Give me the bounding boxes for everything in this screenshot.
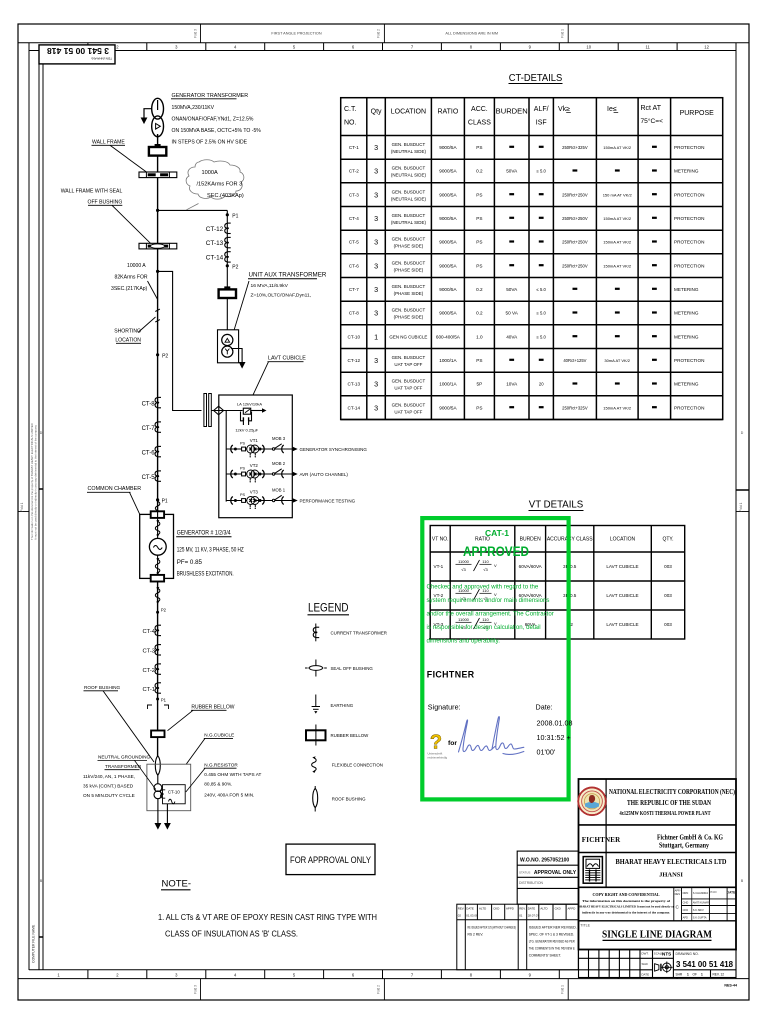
- svg-text:PS: PS: [476, 192, 482, 197]
- CT table row CT-10 values: [348, 332, 699, 341]
- svg-text:PROTECTION: PROTECTION: [674, 240, 704, 245]
- svg-text:NEUTRAL GROUNDING: NEUTRAL GROUNDING: [98, 755, 151, 760]
- svg-text:PS: PS: [476, 263, 482, 268]
- svg-text:CT-3: CT-3: [349, 192, 359, 197]
- capacitor 12kV 0.25uF: [241, 412, 252, 426]
- node P1 (neutral side CT set): [156, 698, 159, 701]
- wire: LAVT internal bus: [225, 411, 227, 502]
- svg-text:Qty: Qty: [371, 109, 382, 116]
- CT table row CT-7 values: [349, 284, 699, 296]
- svg-text:MOB 1: MOB 1: [272, 488, 286, 493]
- title block outline: [579, 779, 737, 950]
- svg-text:SPEC. OF VT-1 & 3 REVISED.: SPEC. OF VT-1 & 3 REVISED.: [529, 933, 575, 937]
- current transformer CT-5: [155, 471, 161, 481]
- svg-text:ISSUED AFTER NER REVISED.: ISSUED AFTER NER REVISED.: [529, 926, 577, 930]
- svg-text:12: 12: [704, 45, 709, 50]
- svg-text:3: 3: [374, 309, 378, 318]
- svg-text:2008.01.08: 2008.01.08: [537, 719, 573, 728]
- ground: generator transformer neutral earthing arrow: [141, 118, 148, 125]
- wire: bus below common chamber: [157, 578, 159, 757]
- legend current transformer symbol: [313, 624, 387, 642]
- svg-text:LOCATION: LOCATION: [391, 109, 426, 116]
- generator G1 symbol: [149, 538, 166, 555]
- svg-text:GEN. BUSDUCT: GEN. BUSDUCT: [392, 355, 426, 360]
- svg-text:DWT.: DWT.: [642, 952, 649, 956]
- svg-text:Fold 2: Fold 2: [377, 985, 381, 994]
- border bottom frame line: [29, 969, 736, 971]
- svg-text:CT-4: CT-4: [142, 629, 155, 635]
- CT table row CT-13 values: [348, 379, 699, 391]
- current transformer CT-1: [155, 683, 161, 693]
- svg-text:125 MV, 11 KV, 3 PHASE, 50 HZ: 125 MV, 11 KV, 3 PHASE, 50 HZ: [177, 547, 244, 554]
- svg-text:METERING: METERING: [674, 382, 699, 387]
- svg-text:9000/5A: 9000/5A: [439, 405, 457, 410]
- svg-text:150MVA,230/11KV: 150MVA,230/11KV: [172, 105, 215, 111]
- bottom tick marks: [57, 970, 709, 979]
- svg-text:C.T.: C.T.: [344, 106, 357, 113]
- svg-text:S.K.GUPTA: S.K.GUPTA: [693, 916, 707, 920]
- svg-text:PS: PS: [240, 493, 246, 497]
- label N.G.RESISTOR: [204, 763, 262, 798]
- svg-text:GEN. BUSDUCT: GEN. BUSDUCT: [392, 189, 426, 194]
- CT table row CT-6 values: [349, 260, 705, 272]
- svg-text:Z=10%,OLTC/ONAF,Dyn11,: Z=10%,OLTC/ONAF,Dyn11,: [251, 293, 312, 299]
- svg-text:9000/5A: 9000/5A: [439, 263, 457, 268]
- CT table row CT-1 values: [349, 142, 705, 154]
- leader NG cubicle: [186, 738, 205, 764]
- CT table row CT-5 values: [349, 237, 705, 249]
- svg-text:150mA AT VK/2: 150mA AT VK/2: [603, 240, 632, 245]
- svg-text:CT-DETAILS: CT-DETAILS: [509, 72, 563, 84]
- svg-text:MOB 2: MOB 2: [272, 461, 286, 466]
- svg-text:VT NO.: VT NO.: [432, 537, 449, 543]
- svg-text:50 VA: 50 VA: [506, 311, 519, 316]
- revision history tables: [457, 904, 579, 970]
- svg-text:QTY.: QTY.: [662, 537, 673, 543]
- svg-text:3: 3: [374, 285, 378, 294]
- svg-text:3: 3: [374, 167, 378, 176]
- legend seal off bushing symbol: [305, 660, 373, 677]
- node: busduct tap junction: [156, 209, 159, 212]
- svg-text:LAVT CUBICLE: LAVT CUBICLE: [606, 564, 638, 569]
- current transformer CT-3: [155, 645, 161, 655]
- fold boundary ticks left/right: [18, 511, 29, 513]
- svg-text:APPD: APPD: [506, 907, 514, 911]
- svg-text:CT-12: CT-12: [348, 358, 361, 363]
- svg-text:Fold 3: Fold 3: [194, 29, 198, 38]
- NG cubicle enclosure: [147, 764, 191, 811]
- svg-text:OFF BUSHING: OFF BUSHING: [87, 200, 122, 206]
- svg-text:PS: PS: [240, 441, 246, 445]
- wire: LAVT branch: [158, 271, 202, 410]
- svg-text:SHR: SHR: [676, 973, 683, 977]
- svg-text:ON 5 MIN.DUTY CYCLE: ON 5 MIN.DUTY CYCLE: [83, 793, 135, 798]
- legend flexible connection symbol: [312, 756, 383, 773]
- svg-text:ALTD: ALTD: [479, 907, 486, 911]
- svg-text:GEN. BUSDUCT: GEN. BUSDUCT: [392, 213, 426, 218]
- svg-text:CURRENT TRANSFORMER: CURRENT TRANSFORMER: [331, 631, 387, 636]
- leader rubber bellow: [168, 710, 194, 730]
- ground: NG transformer earthing: [155, 823, 162, 830]
- svg-text:PF= 0.85: PF= 0.85: [177, 559, 203, 566]
- svg-text:(PHASE SIDE): (PHASE SIDE): [394, 315, 424, 320]
- svg-text:CT-5: CT-5: [349, 240, 359, 245]
- svg-text:RUBBER BELLOW: RUBBER BELLOW: [331, 733, 370, 738]
- svg-text:is responsible for design calc: is responsible for design calculation, d…: [427, 624, 541, 631]
- svg-text:10VA: 10VA: [506, 382, 518, 387]
- svg-text:10: 10: [586, 45, 591, 50]
- label NEUTRAL GROUNDING TRANSFORMER: [83, 755, 151, 798]
- svg-text:ROOF BUSHING: ROOF BUSHING: [332, 797, 366, 802]
- svg-text:Fold 2: Fold 2: [377, 29, 381, 38]
- W.O. number box: [517, 851, 578, 904]
- zone ticks left: [39, 488, 43, 490]
- BHEL logo emblem: [583, 857, 602, 884]
- svg-text:VT1: VT1: [250, 438, 259, 443]
- svg-text:RATIO: RATIO: [437, 109, 458, 116]
- stamp body text: [427, 584, 554, 645]
- svg-text:CT-2: CT-2: [349, 169, 359, 174]
- scale and signature labels: [642, 952, 664, 977]
- svg-text:FICHTNER: FICHTNER: [582, 836, 621, 844]
- wire: UAT tap branch horizontal: [158, 209, 228, 211]
- svg-text:REV.: REV.: [519, 907, 526, 911]
- svg-text:DES: DES: [675, 892, 681, 896]
- svg-text:COPY RIGHT AND CONFIDENTIAL: COPY RIGHT AND CONFIDENTIAL: [592, 892, 659, 897]
- svg-text:80,85 & 90%.: 80,85 & 90%.: [204, 781, 232, 786]
- border top band line: [18, 42, 749, 44]
- svg-text:LOCATION: LOCATION: [115, 338, 141, 344]
- svg-text:50VA: 50VA: [506, 169, 518, 174]
- svg-text:CAT-1: CAT-1: [485, 528, 509, 538]
- CT table row CT-12 values: [348, 355, 705, 367]
- leader cloud to wire: [187, 204, 199, 210]
- flexible connection inside chamber top: [155, 520, 160, 537]
- svg-text:5P: 5P: [477, 382, 483, 387]
- seal off bushing diamond at LAVT entry: [214, 406, 224, 415]
- wire: NG resistor to earth: [166, 804, 168, 825]
- border left frame line: [28, 43, 30, 970]
- svg-text:250Rct+250V: 250Rct+250V: [562, 240, 588, 245]
- svg-text:STATUS: STATUS: [519, 870, 530, 874]
- svg-text:1: 1: [374, 332, 378, 341]
- node P2 (main bus): [156, 353, 159, 356]
- rubber bellow on chamber bottom: [151, 575, 164, 582]
- svg-text:BRUSHLESS EXCITATION.: BRUSHLESS EXCITATION.: [177, 571, 234, 578]
- CT table headers: [344, 105, 714, 127]
- wall frame 1 symbol: [139, 172, 177, 178]
- svg-text:and/or the overall arrangement: and/or the overall arrangement. The Cont…: [427, 611, 554, 618]
- svg-text:LAVT CUBICLE: LAVT CUBICLE: [606, 593, 638, 598]
- svg-text:REV.: REV.: [458, 907, 465, 911]
- svg-text:CT-10: CT-10: [168, 790, 181, 795]
- svg-text:RE ISSUED AFTER C/S (WITHOUT C: RE ISSUED AFTER C/S (WITHOUT CHANGES): [468, 926, 517, 930]
- svg-text:UAT TAP OFF: UAT TAP OFF: [394, 386, 422, 391]
- leader LAVT cubicle: [253, 362, 269, 395]
- wire: UAT bushing to transformer: [226, 298, 228, 330]
- svg-text:35 kVA (CONT.) BASED: 35 kVA (CONT.) BASED: [83, 783, 134, 788]
- svg-text:(NEUTRAL SIDE): (NEUTRAL SIDE): [391, 196, 427, 201]
- wire: NG transformer to earth: [157, 799, 159, 825]
- node P2 (neutral side CT set): [156, 611, 159, 614]
- svg-text:01.03.08: 01.03.08: [466, 914, 478, 918]
- border top tick band bottom line: [29, 50, 736, 52]
- transformer T2 unit aux transformer: [218, 330, 239, 363]
- svg-text:DRN: DRN: [683, 891, 689, 895]
- svg-text:150mA AT VK/2: 150mA AT VK/2: [603, 145, 632, 150]
- svg-text:NOTE-: NOTE-: [162, 879, 192, 890]
- current transformer CT-14: [225, 252, 231, 262]
- leader roof bushing: [103, 691, 154, 762]
- svg-text:PROTECTION: PROTECTION: [674, 358, 704, 363]
- svg-text:CT-13: CT-13: [348, 382, 361, 387]
- svg-text:S.CHANDRA: S.CHANDRA: [693, 891, 709, 895]
- svg-text:DATE: DATE: [727, 891, 735, 895]
- svg-text:003: 003: [664, 593, 672, 598]
- rubber bellow on neutral lead: [151, 731, 164, 738]
- CT table row CT-4 values: [349, 213, 705, 225]
- svg-text:3: 3: [374, 214, 378, 223]
- svg-text:3: 3: [374, 403, 378, 412]
- svg-text:PS: PS: [476, 145, 482, 150]
- svg-text:ALL DIMENSIONS ARE IN MM: ALL DIMENSIONS ARE IN MM: [445, 31, 498, 35]
- LAVT cubicle enclosure: [219, 395, 292, 518]
- svg-text:CHD: CHD: [683, 901, 689, 905]
- svg-text:110: 110: [482, 559, 489, 564]
- svg-text:CLASS: CLASS: [468, 120, 491, 127]
- svg-text:METERING: METERING: [674, 334, 699, 339]
- svg-text:COMMENTS' SHEET.: COMMENTS' SHEET.: [529, 954, 561, 958]
- svg-text:CKD: CKD: [493, 907, 499, 911]
- svg-text:Checked and approved with rega: Checked and approved with regard to the: [427, 584, 539, 591]
- svg-text:PS: PS: [476, 240, 482, 245]
- leader shorting location: [138, 317, 156, 333]
- svg-text:LTG. GENERATOR REVISED AS PER: LTG. GENERATOR REVISED AS PER: [529, 940, 575, 944]
- svg-text:3: 3: [374, 190, 378, 199]
- svg-text:CT-2: CT-2: [142, 668, 155, 674]
- svg-text:CT-7: CT-7: [349, 287, 359, 292]
- svg-text:ROOF BUSHING: ROOF BUSHING: [84, 685, 121, 690]
- svg-text:10:31:52 +: 10:31:52 +: [537, 733, 571, 742]
- svg-text:IN STEPS OF 2.5% ON HV SIDE: IN STEPS OF 2.5% ON HV SIDE: [172, 140, 248, 146]
- svg-text:ON 150MVA BASE, OCTC+5% TO -5%: ON 150MVA BASE, OCTC+5% TO -5%: [172, 128, 262, 134]
- svg-text:GEN. BUSDUCT: GEN. BUSDUCT: [392, 142, 426, 147]
- shorting marks on bus: [155, 309, 160, 322]
- svg-text:CT-7: CT-7: [142, 426, 156, 432]
- svg-text:CT-14: CT-14: [206, 254, 224, 261]
- svg-text:dimensions and operability.: dimensions and operability.: [427, 638, 501, 645]
- svg-text:THE REPUBLIC OF THE SUDAN: THE REPUBLIC OF THE SUDAN: [627, 799, 711, 807]
- svg-text:?: ?: [430, 732, 442, 754]
- drawing number box top-left (rotated): [39, 45, 115, 64]
- svg-text:GENERATOR SYNCHRONISING: GENERATOR SYNCHRONISING: [300, 447, 368, 452]
- flexible connection below chamber: [155, 587, 160, 604]
- svg-text:250Rct+325V: 250Rct+325V: [562, 405, 588, 410]
- VT feeder row VT1: [226, 436, 367, 457]
- svg-text:150mA AT VK/2: 150mA AT VK/2: [603, 263, 632, 268]
- svg-text:1: 1: [687, 973, 689, 977]
- svg-text:9000/5A: 9000/5A: [439, 311, 457, 316]
- svg-text:REV. 12: REV. 12: [713, 973, 725, 977]
- svg-text:≤ 5.0: ≤ 5.0: [537, 169, 547, 174]
- roof bushing lens on NG cubicle: [155, 756, 160, 775]
- svg-text:3 541 00 51 418: 3 541 00 51 418: [47, 46, 109, 56]
- svg-text:VT2: VT2: [250, 463, 259, 468]
- CT table row CT-14 values: [348, 402, 705, 414]
- legend roof bushing symbol: [313, 786, 366, 812]
- VT table row VT-2 values: [434, 588, 673, 601]
- svg-text:40VA: 40VA: [506, 334, 518, 339]
- bushing under generator transformer: [149, 144, 166, 156]
- svg-text:50VA: 50VA: [506, 287, 518, 292]
- svg-text:GEN. BUSDUCT: GEN. BUSDUCT: [392, 379, 426, 384]
- svg-text:GEN. BUSDUCT: GEN. BUSDUCT: [392, 308, 426, 313]
- transformer T1 generator transformer: [152, 98, 164, 136]
- svg-text:1000/1A: 1000/1A: [439, 382, 457, 387]
- svg-text:PURPOSE: PURPOSE: [680, 110, 715, 117]
- flexible connection inside chamber bottom: [155, 558, 160, 575]
- svg-text:ONAN/ONAF/OFAF,YNd1, Z=12.5%: ONAN/ONAF/OFAF,YNd1, Z=12.5%: [172, 117, 254, 123]
- svg-text:4x125MW KOSTI THERMAL POWER PL: 4x125MW KOSTI THERMAL POWER PLANT: [620, 810, 712, 817]
- transformer T3 neutral grounding transformer: [154, 784, 162, 792]
- svg-text:GEN. BUSDUCT: GEN. BUSDUCT: [392, 166, 426, 171]
- svg-text:FIRST ANGLE PROJECTION: FIRST ANGLE PROJECTION: [271, 31, 321, 35]
- svg-text:PROTECTION: PROTECTION: [674, 145, 704, 150]
- svg-text:CT-12: CT-12: [206, 226, 224, 233]
- svg-text:LA 12kV/10kA: LA 12kV/10kA: [237, 402, 262, 407]
- svg-text:P2: P2: [161, 608, 167, 613]
- svg-text:VT3: VT3: [250, 490, 259, 495]
- svg-text:3SEC.(217KAp): 3SEC.(217KAp): [111, 286, 148, 292]
- svg-text:UAT TAP OFF: UAT TAP OFF: [394, 409, 422, 414]
- CT table row CT-2 values: [349, 166, 699, 178]
- current transformer CT-7: [155, 422, 161, 432]
- svg-text:11: 11: [646, 45, 651, 50]
- wire: UAT secondary exit: [231, 349, 242, 364]
- svg-text:system requirements and/or mai: system requirements and/or main dimensio…: [427, 597, 550, 604]
- svg-text:1000/1A: 1000/1A: [439, 358, 457, 363]
- svg-text:NATIONAL ELECTRICITY CORPORATI: NATIONAL ELECTRICITY CORPORATION (NEC): [609, 788, 735, 796]
- svg-text:20: 20: [539, 382, 544, 387]
- svg-text:DATE: DATE: [642, 972, 650, 976]
- svg-text:S.K.SRIV: S.K.SRIV: [693, 908, 704, 912]
- svg-text:01: 01: [519, 914, 523, 918]
- svg-text:AVR (AUTO CHANNEL): AVR (AUTO CHANNEL): [300, 472, 349, 477]
- svg-text:WALL FRAME WITH SEAL: WALL FRAME WITH SEAL: [61, 189, 123, 195]
- svg-text:LOCATION: LOCATION: [610, 537, 636, 543]
- svg-text:(NEUTRAL SIDE): (NEUTRAL SIDE): [391, 220, 427, 225]
- svg-text:GEN. BUSDUCT: GEN. BUSDUCT: [392, 284, 426, 289]
- svg-text:16 MVA,11/6.9kV: 16 MVA,11/6.9kV: [251, 283, 289, 289]
- svg-text:SHORTING: SHORTING: [114, 329, 141, 335]
- svg-text:SEC.(403KAp): SEC.(403KAp): [207, 193, 244, 199]
- svg-text:9000/5A: 9000/5A: [439, 287, 457, 292]
- svg-text:TITLE: TITLE: [580, 924, 590, 928]
- svg-text:SEAL OFF BUSHING: SEAL OFF BUSHING: [331, 666, 374, 671]
- svg-text:Fold 1: Fold 1: [739, 502, 743, 511]
- svg-text:RS 2 REV.: RS 2 REV.: [468, 933, 484, 937]
- stamp handwritten blue signature: [459, 717, 524, 755]
- svg-text:CLASS OF INSULATION AS 'B' CLA: CLASS OF INSULATION AS 'B' CLASS.: [165, 930, 298, 939]
- border bottom tick band line: [18, 978, 749, 980]
- svg-text:≤ 5.0: ≤ 5.0: [537, 311, 547, 316]
- svg-text:APD: APD: [683, 916, 688, 920]
- svg-text:OF: OF: [693, 973, 697, 977]
- svg-text:150 mA AT VK/2: 150 mA AT VK/2: [603, 192, 633, 197]
- border left text band line: [38, 45, 40, 970]
- common chamber enclosure box: [140, 514, 174, 578]
- svg-text:TRANSFORMER: TRANSFORMER: [105, 764, 142, 769]
- svg-text:JHANSI: JHANSI: [659, 872, 683, 879]
- svg-text:240V, 400A FOR 5 MIN.: 240V, 400A FOR 5 MIN.: [204, 792, 254, 797]
- svg-text:Fichtner GmbH & Co. KG: Fichtner GmbH & Co. KG: [657, 834, 723, 842]
- svg-text:150mA AT VK/2: 150mA AT VK/2: [603, 216, 632, 221]
- svg-text:WALL FRAME: WALL FRAME: [92, 140, 125, 146]
- svg-text:EARTHING: EARTHING: [331, 703, 354, 708]
- svg-text:FOR APPROVAL ONLY: FOR APPROVAL ONLY: [290, 855, 371, 865]
- CT-DETAILS table grid: [341, 98, 723, 420]
- svg-text:BHARAT HEAVY ELECTRICALS LTD: BHARAT HEAVY ELECTRICALS LTD: [616, 858, 727, 866]
- VT table headers: [432, 537, 674, 543]
- wire: main generator bus vertical: [157, 134, 159, 514]
- svg-text:THE COMMENTS IN THE 'REVIEW &: THE COMMENTS IN THE 'REVIEW &: [529, 947, 576, 951]
- NEC logo emblem: [578, 788, 606, 816]
- svg-text:LAVT CUBICLE: LAVT CUBICLE: [606, 622, 638, 627]
- svg-text:PS: PS: [476, 358, 482, 363]
- svg-text:Vk≥: Vk≥: [558, 106, 570, 113]
- svg-text:01'00': 01'00': [537, 748, 556, 757]
- svg-text:FICHTNER: FICHTNER: [427, 670, 475, 680]
- svg-text:N.G.RESISTOR: N.G.RESISTOR: [204, 763, 238, 768]
- svg-text:250Rct+250V: 250Rct+250V: [562, 216, 588, 221]
- svg-text:CT-1: CT-1: [349, 145, 359, 150]
- svg-text:Fold 1: Fold 1: [20, 502, 24, 511]
- svg-text:28.07.07: 28.07.07: [528, 914, 540, 918]
- leader UAT text: [234, 281, 249, 331]
- svg-text:003: 003: [664, 622, 672, 627]
- bushing on UAT: [219, 286, 236, 298]
- svg-text:Signature:: Signature:: [428, 703, 461, 712]
- svg-text:GENERATOR TRANSFORMER: GENERATOR TRANSFORMER: [172, 93, 249, 99]
- VT DETAILS table grid: [430, 526, 685, 640]
- svg-text:NES-44: NES-44: [724, 984, 737, 988]
- svg-text:CT-3: CT-3: [142, 649, 155, 655]
- title block background: [579, 779, 737, 978]
- svg-text:Fold 1: Fold 1: [561, 29, 565, 38]
- svg-text:1. ALL CTs & VT ARE OF EPOXY R: 1. ALL CTs & VT ARE OF EPOXY RESIN CAST …: [158, 913, 377, 922]
- leader wall frame 2: [112, 205, 151, 244]
- svg-text:Fold 1: Fold 1: [561, 985, 565, 994]
- svg-text:250Rct+250V: 250Rct+250V: [562, 263, 588, 268]
- flexible connection above common chamber: [155, 500, 160, 517]
- svg-text:CT-8: CT-8: [142, 401, 156, 407]
- svg-text:75°C=<: 75°C=<: [641, 117, 664, 125]
- VT table row VT-3 values: [434, 617, 673, 630]
- svg-text:P1: P1: [162, 499, 168, 505]
- svg-text:P1: P1: [161, 698, 167, 703]
- svg-text:ACC.: ACC.: [471, 106, 488, 113]
- label generator transformer text block: [171, 93, 261, 146]
- FOR APPROVAL ONLY box: [286, 844, 375, 875]
- svg-text:ALTD: ALTD: [540, 907, 547, 911]
- current transformer CT-4: [155, 625, 161, 635]
- svg-text:11000: 11000: [458, 617, 470, 622]
- svg-text:250Rct+250V: 250Rct+250V: [562, 192, 588, 197]
- svg-text:003: 003: [664, 564, 672, 569]
- wire: LA to arrow: [251, 410, 263, 412]
- svg-text:12kV 0.25µF: 12kV 0.25µF: [235, 427, 258, 432]
- svg-text:1.0: 1.0: [476, 334, 483, 339]
